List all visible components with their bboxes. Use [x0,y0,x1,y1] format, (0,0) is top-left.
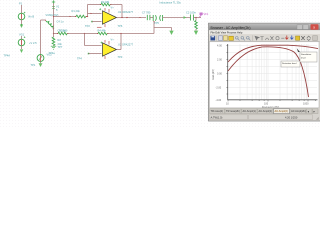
svg-text:VG1: VG1 [19,32,25,36]
svg-text:-2.00: -2.00 [216,87,222,90]
svg-text:TP4A: TP4A [4,54,11,58]
svg-text:R4 48k: R4 48k [98,29,107,33]
svg-text:Gain (dB): Gain (dB) [212,69,215,80]
svg-text:AC Ampl(2): AC Ampl(2) [275,109,288,113]
svg-text:Browser - AC Amplifier(2b): Browser - AC Amplifier(2b) [211,26,251,30]
svg-text:U2 OPA2277: U2 OPA2277 [118,43,134,47]
svg-text:R2: R2 [58,38,62,42]
svg-text:4.00: 4.00 [217,45,222,48]
wire to U2 non-inverting input [77,53,102,61]
toolbar [209,34,320,42]
svg-text:2.00: 2.00 [217,59,222,62]
window buttons [297,24,319,29]
svg-text:U1 OPA2277: U1 OPA2277 [118,10,134,14]
svg-text:level: level [301,57,306,59]
svg-text:VF1: VF1 [204,12,209,16]
U2 output wire up to feedback rail [117,34,121,50]
status bar [209,114,320,120]
menu bar [209,30,320,34]
svg-text:R2 48k: R2 48k [101,0,110,4]
feedback resistor R4 loop of U2 [84,28,154,35]
shunt branch to ground (between C6 halves) [153,21,173,35]
tab row [209,108,320,114]
wire to U2 inverting input [85,34,102,46]
node at C2 output with VF1 pin [194,12,209,18]
svg-text:x: x [313,26,315,30]
axis labels [212,45,309,109]
resistor R3 [53,29,85,35]
voltage source VG3 (+V bias) [18,32,37,53]
op-amp U1 [97,6,134,29]
curve A (upper) [228,45,318,62]
svg-text:A:TW(1.0): A:TW(1.0) [211,115,223,119]
svg-text:C2 100n: C2 100n [186,11,196,15]
schematic background [0,0,320,128]
gridlines vertical (log) [240,44,308,100]
curve B (bandpass) [228,47,309,97]
x axis [228,99,318,101]
op-amp U2 [101,38,134,60]
svg-text:V+: V+ [111,6,115,10]
VCM supply rail [46,0,60,33]
browser window frame [209,23,320,121]
svg-text:TP4: TP4 [77,57,82,61]
svg-text:Simulation: Simulation [301,53,312,56]
resistor R1 [54,9,88,18]
svg-text:TP2: TP2 [85,24,90,28]
capacitor C7 [142,11,153,21]
svg-text:V+: V+ [111,38,115,42]
callout 2 [297,48,317,62]
resistor R2 vertical to ground [49,34,63,56]
svg-text:Inductance TL 35u: Inductance TL 35u [160,1,182,5]
svg-text:File Edit View Process Hel: File Edit View Process Help [211,30,243,34]
svg-text:-4.00: -4.00 [216,99,222,102]
svg-text:TP6: TP6 [118,24,123,28]
svg-text:TP3: TP3 [118,55,123,59]
wire to C2 [163,16,191,19]
svg-text:AC Ampl(4): AC Ampl(4) [259,109,272,113]
svg-text:C7 780: C7 780 [142,11,151,15]
plot area [210,42,320,109]
svg-text:AC Ampl(2b): AC Ampl(2b) [291,109,306,113]
svg-text:R3 100: R3 100 [59,29,68,33]
svg-text:TP5: TP5 [154,21,159,25]
voltage source VG2 [31,20,53,67]
svg-text:P1: P1 [19,2,23,6]
capacitor C4 (diagonal element) [46,20,66,33]
svg-text:24k: 24k [58,42,63,46]
svg-text:+V 2.5: +V 2.5 [29,41,37,45]
svg-text:4.20 1/250: 4.20 1/250 [285,115,298,119]
y axis [227,44,229,100]
svg-text:0.00: 0.00 [217,73,222,76]
callout 1 [281,58,302,67]
capacitor C2 [186,11,196,21]
svg-text:TR resu(2b): TR resu(2b) [226,109,240,113]
svg-text:Vin B: Vin B [28,14,34,18]
wire to U1 non-inverting input [85,21,102,28]
svg-text:C4 1u: C4 1u [57,20,64,24]
ground [169,31,173,35]
wire from VG2 rail to C4 [41,19,46,21]
U1 output wire [117,17,146,18]
ground [51,46,56,49]
wire to U1 inverting input [88,13,102,14]
svg-text:1000: 1000 [303,103,309,106]
gridlines horizontal [228,46,317,95]
node VCM [53,16,54,17]
svg-text:AC Ampl(1): AC Ampl(1) [243,109,256,113]
svg-text:R1 24k: R1 24k [72,9,81,13]
ground [194,31,198,35]
svg-text:Distortion level: Distortion level [282,62,297,65]
svg-text:TP4a: TP4a [49,51,56,55]
svg-text:TP1: TP1 [31,63,36,67]
voltage source VG1 (Vin B) [18,2,34,29]
resistor R5 to ground [194,18,198,36]
feedback resistor R2 loop of U1 [87,0,122,18]
power symbol V1 [52,0,55,3]
svg-text:TR resu(2): TR resu(2) [211,109,224,113]
coupled pair C6 [153,15,162,25]
title bar [209,24,320,30]
